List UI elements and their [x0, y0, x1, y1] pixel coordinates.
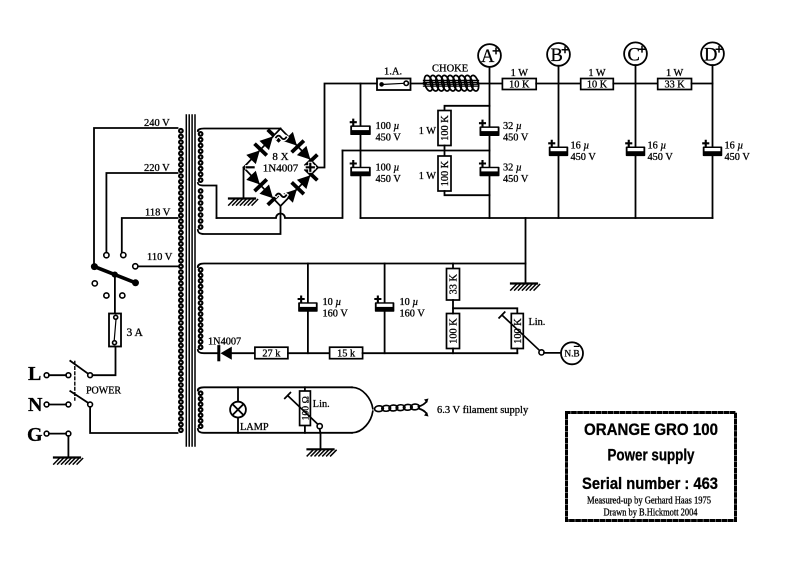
wire lamp ground stem — [320, 433, 322, 450]
wire 110V tap — [138, 265, 178, 267]
wire wiper to NB — [544, 352, 561, 354]
wire bias bottom rail a — [198, 350, 219, 353]
svg-text:C: C — [628, 45, 640, 65]
svg-text:6.3 V filament supply: 6.3 V filament supply — [437, 405, 529, 416]
wire 220V tap — [106, 173, 177, 253]
wire bridge plus to rail — [318, 84, 377, 168]
svg-text:Power supply: Power supply — [608, 447, 696, 465]
svg-text:B: B — [551, 46, 563, 66]
svg-text:10 µ: 10 µ — [400, 297, 419, 308]
svg-text:240 V: 240 V — [144, 118, 170, 129]
transformer core — [186, 115, 195, 446]
resistor R5 100K — [438, 156, 451, 191]
svg-text:160 V: 160 V — [323, 309, 349, 320]
svg-text:32 µ: 32 µ — [503, 121, 522, 132]
ground (main) — [511, 282, 537, 284]
fuse F1 1A — [377, 79, 411, 91]
wire R1 to B — [536, 83, 581, 85]
transformer bias winding — [199, 268, 203, 272]
wire R6 to junction — [453, 300, 517, 314]
lamp LA1 — [230, 402, 246, 418]
node N.B — [561, 342, 583, 364]
potentiometer VR1 100K Lin — [511, 314, 523, 349]
wire bridge minus to ground — [243, 168, 245, 199]
transformer primary winding — [179, 129, 183, 133]
svg-text:100 µ: 100 µ — [376, 163, 400, 174]
bridge diode D4 — [297, 146, 311, 160]
wire filament bottom rail — [198, 429, 352, 433]
svg-text:450 V: 450 V — [376, 133, 402, 144]
capacitor C8 10u — [298, 302, 318, 312]
wire D column — [712, 65, 714, 218]
wire lamp column — [237, 387, 239, 433]
svg-text:8 X: 8 X — [272, 151, 288, 163]
bridge diode D1 — [246, 150, 259, 164]
resistor R4 100K — [438, 111, 451, 146]
bridge diode D5 — [246, 171, 259, 185]
svg-text:CHOKE: CHOKE — [432, 64, 468, 75]
wire choke to R1 — [478, 83, 503, 85]
wire R4 to mid rail — [444, 146, 446, 157]
svg-text:3 A: 3 A — [127, 327, 144, 339]
bridge diode D3 — [283, 132, 297, 146]
resistor R8 27k — [255, 347, 288, 359]
resistor R6 33K — [447, 269, 460, 301]
wire bias cap column 1 — [307, 264, 309, 354]
svg-text:220 V: 220 V — [144, 163, 170, 174]
svg-text:ORANGE GRO 100: ORANGE GRO 100 — [584, 421, 718, 439]
wire C column — [635, 65, 637, 218]
ground (bridge) — [229, 197, 255, 199]
svg-text:16 µ: 16 µ — [648, 141, 667, 152]
svg-text:1 W: 1 W — [588, 68, 606, 79]
wire A column — [489, 67, 491, 218]
wire bias top rail — [198, 264, 526, 268]
wire mid rail — [343, 150, 490, 152]
wire N terminal — [49, 404, 66, 406]
wire HT top to bridge — [198, 129, 281, 132]
resistor R9 15k — [330, 347, 363, 359]
svg-text:1N4007: 1N4007 — [263, 163, 299, 175]
wire fuse to choke — [411, 83, 427, 85]
resistor R1 10K — [502, 79, 536, 90]
resistor R2 10K — [581, 79, 614, 90]
potentiometer VR2 100ohm stubs — [304, 387, 306, 433]
svg-text:32 µ: 32 µ — [503, 163, 522, 174]
wire wiper to rail (VR2) — [319, 429, 322, 433]
svg-text:450 V: 450 V — [725, 152, 751, 163]
svg-text:33 K: 33 K — [449, 274, 460, 295]
bridge diode D8 — [297, 175, 311, 189]
svg-text:10 µ: 10 µ — [323, 297, 342, 308]
bridge ~ bottom — [276, 194, 286, 198]
selector contact 220V — [104, 253, 109, 258]
svg-text:1 W: 1 W — [666, 68, 684, 79]
svg-text:Lin.: Lin. — [313, 399, 330, 410]
svg-text:10 K: 10 K — [509, 80, 530, 91]
svg-text:16 µ: 16 µ — [571, 141, 590, 152]
svg-text:110 V: 110 V — [147, 252, 173, 263]
wire R7 stubs — [452, 308, 454, 353]
svg-text:N: N — [28, 394, 43, 416]
wire D9 to R8 — [232, 352, 255, 354]
capacitor C6 16u — [626, 147, 646, 157]
transformer HT secondary lower — [199, 189, 203, 193]
svg-text:27 k: 27 k — [262, 349, 281, 360]
switch S1a blade (L pole) — [70, 361, 88, 374]
svg-text:450 V: 450 V — [503, 174, 529, 185]
svg-text:D: D — [704, 45, 717, 65]
svg-text:10 K: 10 K — [587, 80, 608, 91]
fuse F2 3A — [109, 314, 121, 347]
resistor R4 100K stub top — [445, 106, 490, 111]
svg-text:POWER: POWER — [86, 386, 121, 397]
wire ground stem — [525, 218, 527, 284]
svg-text:33 K: 33 K — [664, 80, 685, 91]
node A+ — [478, 44, 501, 67]
svg-text:450 V: 450 V — [503, 133, 529, 144]
bridge outline — [244, 129, 319, 207]
svg-text:LAMP: LAMP — [240, 422, 269, 433]
bridge diode D2 — [260, 136, 274, 150]
wire R8 to R9 — [288, 352, 330, 354]
wire ground rail — [361, 217, 713, 219]
svg-text:118 V: 118 V — [145, 208, 171, 219]
bridge diode D7 — [283, 189, 297, 203]
svg-text:450 V: 450 V — [648, 152, 674, 163]
svg-text:1 W: 1 W — [419, 126, 437, 137]
svg-text:Drawn by B.Hickmott 2004: Drawn by B.Hickmott 2004 — [604, 508, 698, 519]
capacitor C9 10u — [375, 302, 395, 312]
diode D9 1N4007 — [217, 347, 220, 360]
bridge - mark — [247, 165, 253, 169]
switch S1b blade (N pole) — [70, 391, 88, 403]
transformer filament winding — [199, 391, 203, 395]
ground (filament) — [308, 448, 334, 450]
bridge ~ top — [276, 136, 286, 140]
filament twisted pair — [374, 406, 383, 412]
capacitor C1 100u — [350, 125, 371, 135]
wire R3 to D — [692, 83, 713, 85]
mechanical link S1 — [74, 362, 76, 401]
wire filament top rail — [198, 387, 352, 390]
wire HT centre tap — [198, 183, 217, 218]
wire R2 to C — [613, 83, 657, 85]
svg-text:160 V: 160 V — [400, 309, 426, 320]
node C+ — [624, 42, 647, 65]
filament arrows — [419, 402, 427, 414]
wire bias bottom rail b — [363, 352, 518, 354]
svg-text:450 V: 450 V — [376, 174, 402, 185]
svg-text:1N4007: 1N4007 — [208, 337, 241, 348]
svg-text:1 W: 1 W — [511, 68, 529, 79]
svg-text:L: L — [28, 363, 41, 385]
title block border — [567, 413, 736, 521]
transformer HT secondary upper — [199, 132, 203, 136]
svg-text:16 µ: 16 µ — [725, 141, 744, 152]
svg-text:N.B: N.B — [564, 350, 579, 360]
wire VR1 stub bottom — [516, 349, 518, 354]
wire selector to fuse F2 — [114, 276, 116, 314]
svg-text:100 K: 100 K — [440, 115, 451, 141]
selector S2 blade — [94, 267, 135, 283]
wire 240V tap — [94, 128, 178, 264]
wire L contact to fuse — [93, 347, 116, 376]
selector contact 110V — [133, 264, 138, 269]
capacitor C5 16u — [549, 147, 569, 157]
wire L terminal — [49, 374, 66, 376]
node B+ — [547, 43, 570, 66]
svg-text:1.A.: 1.A. — [384, 67, 402, 78]
svg-text:1 W: 1 W — [419, 171, 437, 182]
svg-text:Serial number : 463: Serial number : 463 — [582, 474, 718, 493]
capacitor C2 100u — [350, 167, 371, 177]
svg-text:Measured-up by Gerhard Haas 19: Measured-up by Gerhard Haas 1975 — [587, 496, 711, 507]
wire N contact to primary bottom — [90, 407, 177, 433]
wire 100u column — [360, 84, 362, 219]
node D+ — [701, 42, 724, 65]
selector unused contacts — [92, 281, 97, 286]
wire G to ground — [67, 436, 69, 458]
svg-text:15 k: 15 k — [337, 349, 356, 360]
ground (mains earth) — [54, 456, 80, 458]
selector contact 118V — [121, 253, 126, 258]
capacitor C3 32u — [480, 126, 500, 136]
potentiometer VR2 100ohm — [300, 391, 311, 426]
svg-text:100 K: 100 K — [449, 318, 460, 344]
wire B column — [558, 66, 560, 218]
wire bias cap column 2 — [384, 264, 386, 354]
svg-text:A: A — [481, 47, 495, 67]
capacitor C7 16u — [703, 147, 723, 157]
wire 118V tap — [122, 218, 178, 253]
resistor R3 33K — [658, 79, 692, 90]
filament cable taper — [352, 387, 373, 433]
resistor R5 stub bottom — [445, 191, 490, 195]
wire HT bottom to bridge — [198, 206, 281, 234]
choke L1 — [423, 75, 434, 92]
wire G terminal — [49, 433, 66, 435]
VR1 wiper — [499, 312, 540, 351]
bridge diode D6 — [260, 185, 274, 199]
resistor R7 100K — [447, 314, 460, 349]
svg-text:G: G — [27, 424, 43, 446]
VR2 wiper — [285, 393, 318, 425]
wire centre tap run with hop — [217, 151, 343, 219]
resistor R6 33K stub — [452, 264, 454, 269]
svg-text:100 µ: 100 µ — [376, 121, 400, 132]
svg-text:450 V: 450 V — [571, 152, 597, 163]
capacitor C4 32u — [480, 167, 500, 177]
svg-text:100 K: 100 K — [440, 160, 451, 186]
svg-text:Lin.: Lin. — [529, 317, 546, 328]
bridge + mark — [307, 164, 314, 171]
